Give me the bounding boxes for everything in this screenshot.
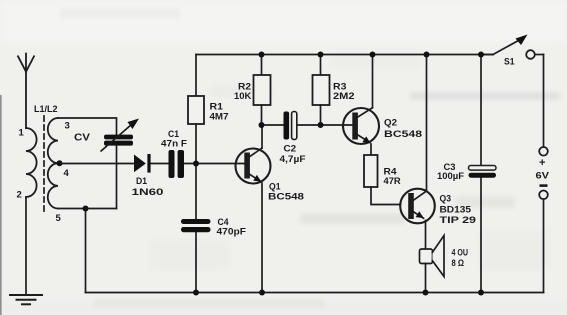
- node rail / C4: [193, 290, 199, 296]
- battery minus dash: [540, 184, 548, 187]
- node rail / Q1 emitter: [259, 290, 265, 296]
- node top rail / Q3 collector: [424, 52, 430, 58]
- transistor Q3: [400, 55, 435, 250]
- capacitor C4: [195, 164, 197, 293]
- svg-text:3: 3: [65, 121, 70, 132]
- wire node 5 drop to ground rail: [85, 209, 87, 293]
- node terminal 5: [83, 206, 89, 212]
- wire terminal 5 to CV bottom: [58, 208, 117, 210]
- L1 left winding: [26, 128, 37, 197]
- svg-text:47R: 47R: [384, 176, 401, 187]
- svg-text:1N60: 1N60: [132, 187, 164, 198]
- svg-text:C2: C2: [284, 144, 297, 155]
- svg-text:8 Ω: 8 Ω: [452, 258, 465, 269]
- wire L1 bottom to ground: [25, 197, 27, 295]
- svg-text:1: 1: [19, 128, 25, 139]
- antenna ANT: [18, 54, 34, 129]
- scan edge artifact: [0, 95, 2, 315]
- wire C1 to Q1 base: [184, 163, 244, 165]
- ground: [10, 295, 42, 304]
- node R1/C1/C4/Q1 base: [193, 161, 199, 167]
- svg-text:4 OU: 4 OU: [452, 248, 469, 259]
- svg-text:4M7: 4M7: [210, 112, 229, 123]
- resistor R2: [254, 55, 271, 126]
- node rail / speaker: [423, 290, 429, 296]
- switch S1: [481, 38, 544, 59]
- capacitor C3 plates: [469, 166, 497, 178]
- node R2/C2/Q1 collector: [259, 122, 265, 128]
- svg-text:S1: S1: [504, 57, 515, 68]
- svg-text:2M2: 2M2: [333, 91, 355, 102]
- Q2 emitter arrowhead: [362, 136, 370, 143]
- capacitor C2 plates: [284, 112, 297, 140]
- svg-text:6V: 6V: [536, 171, 550, 182]
- wire tap 4 to D1: [60, 163, 134, 165]
- core dashed line: [43, 116, 45, 212]
- resistor R1: [188, 55, 204, 164]
- svg-text:10K: 10K: [234, 91, 251, 102]
- wire CV bottom leg: [116, 146, 118, 209]
- bottom rail: [86, 292, 544, 294]
- wire R2 node to C2: [262, 124, 284, 126]
- variable capacitor CV plates: [104, 135, 133, 146]
- svg-text:D1: D1: [136, 176, 148, 187]
- svg-text:CV: CV: [74, 133, 90, 144]
- svg-text:BC548: BC548: [268, 192, 304, 203]
- svg-text:TIP 29: TIP 29: [440, 215, 477, 226]
- node top rail / Q2 collector: [370, 52, 376, 58]
- node rail / C3: [478, 290, 484, 296]
- Q1 emitter arrowhead: [253, 175, 261, 182]
- transistor Q1: [236, 125, 271, 293]
- wire D1 to C1: [150, 163, 168, 165]
- svg-text:100µF: 100µF: [437, 171, 464, 182]
- node top rail / C3: [478, 52, 484, 58]
- resistor R3: [313, 55, 330, 126]
- node top rail / R3: [318, 52, 324, 58]
- capacitor C3 leads: [480, 55, 482, 166]
- svg-text:4: 4: [64, 168, 70, 179]
- svg-text:47n F: 47n F: [161, 139, 187, 150]
- resistor R4: [364, 155, 400, 205]
- svg-text:5: 5: [56, 213, 62, 224]
- svg-text:Q3: Q3: [440, 194, 452, 205]
- node top rail / R2: [259, 52, 265, 58]
- capacitor C4 plates: [181, 219, 211, 232]
- speaker SPK: [420, 236, 445, 293]
- battery B1: [539, 55, 548, 293]
- svg-text:470pF: 470pF: [217, 227, 247, 238]
- capacitor C1 plates: [169, 150, 185, 178]
- L2 right winding: [48, 118, 58, 209]
- svg-text:Q2: Q2: [384, 118, 397, 129]
- transistor Q2: [343, 55, 379, 156]
- transformer L1/L2: [26, 116, 58, 212]
- CV arrow: [101, 119, 140, 152]
- svg-text:2: 2: [17, 190, 22, 201]
- svg-text:+: +: [539, 157, 545, 169]
- node tap 4: [57, 160, 63, 166]
- wire terminal 3 to CV: [58, 118, 117, 135]
- top rail: [196, 54, 493, 56]
- Q3 emitter arrowhead: [416, 211, 424, 218]
- diode D1: [134, 154, 151, 173]
- svg-text:4,7µF: 4,7µF: [280, 154, 306, 165]
- switch S1 arrowhead: [516, 35, 528, 46]
- node R3/C2/Q2 base: [318, 122, 324, 128]
- svg-text:BC548: BC548: [384, 129, 422, 140]
- svg-text:L1/L2: L1/L2: [34, 104, 58, 115]
- wire C2 to Q2 base: [297, 124, 353, 126]
